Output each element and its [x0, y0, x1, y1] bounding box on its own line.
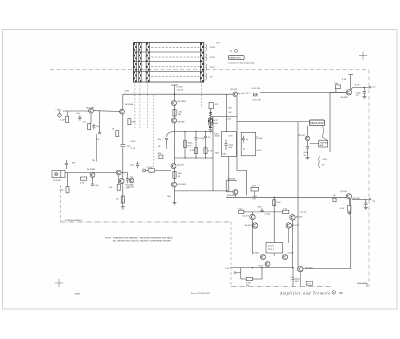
wire driver drop x274.2 [273, 197, 275, 242]
terminal OUT top [364, 86, 375, 89]
svg-text:BC546: BC546 [177, 164, 184, 166]
svg-text:L1704: L1704 [146, 167, 153, 169]
svg-text:1W: 1W [252, 199, 255, 201]
wire regulator to thermal switch [322, 126, 328, 141]
terminal OUT bottom [366, 198, 376, 202]
svg-text:BD140*: BD140* [353, 198, 361, 200]
svg-text:0.22µ: 0.22µ [199, 138, 205, 140]
wire ladder branch x205.5 [205, 132, 207, 159]
capacitor C1712 [130, 162, 139, 169]
node supply tick top right [348, 74, 353, 76]
wire y131.5 ladder top [175, 131, 214, 133]
wire sense branch x96.5 [96, 134, 98, 162]
resistor R1727 [241, 277, 262, 287]
wire base bus [244, 211, 283, 213]
transformer T1701 row lines [134, 52, 204, 72]
thermal switch S1701 [319, 140, 328, 147]
resistor R1701 [60, 116, 69, 122]
node input divider drop [66, 111, 68, 116]
wire Q1713 to bias line [234, 195, 236, 198]
transistor Q1707 [171, 164, 176, 169]
preamp can box A2 [241, 132, 255, 156]
wire ladder branch x185 [184, 132, 186, 159]
svg-text:1W8: 1W8 [213, 123, 218, 125]
wire top out collector [350, 75, 352, 90]
svg-text:+15V: +15V [226, 118, 232, 120]
svg-text:1W: 1W [178, 114, 181, 116]
svg-text:240V: 240V [210, 47, 216, 49]
svg-text:MAINS·SEL: MAINS·SEL [230, 57, 242, 60]
svg-text:BC547B: BC547B [227, 195, 236, 197]
wire Q1715 emitter [307, 141, 309, 147]
transistor Q1705 [208, 119, 212, 123]
wire bead right [155, 169, 171, 171]
capacitor C1706 [91, 177, 100, 187]
regulator box U1701 [310, 120, 325, 126]
node dots bottom cluster [252, 267, 294, 268]
transformer winding column P2 [139, 43, 142, 83]
bias pot box VR1701 [266, 242, 283, 253]
capacitor C1701 [76, 113, 81, 120]
wire right driver chain [288, 228, 290, 243]
svg-text:100µ: 100µ [228, 144, 234, 146]
capacitor C1704 series on rail [120, 144, 131, 148]
svg-text:4.7K: 4.7K [208, 150, 213, 152]
svg-text:BD139: BD139 [231, 89, 238, 91]
svg-text:+35.5V: +35.5V [176, 89, 184, 91]
resistor R1703 [128, 119, 136, 125]
resistor R1713 [204, 148, 213, 154]
wire R1720 to base [335, 89, 337, 93]
svg-text:56K: 56K [132, 121, 136, 123]
svg-text:Amplifier and Tremolo: Amplifier and Tremolo [279, 290, 330, 295]
transistor Q1714 [346, 90, 351, 95]
diode D1703 [226, 179, 237, 192]
svg-text:→ MIC: → MIC [55, 109, 62, 111]
svg-text:PICKUP: PICKUP [53, 180, 62, 182]
svg-text:4.7Ω 1W: 4.7Ω 1W [252, 99, 261, 101]
resistor R1723 labels [252, 196, 257, 201]
svg-text:22K: 22K [228, 108, 232, 110]
wire speaker branch [363, 88, 365, 92]
svg-text:NOTE: TRANSISTORS MARKED * RE: NOTE: TRANSISTORS MARKED * REQUIRE HEATS… [105, 237, 173, 240]
shield dashed boundary top [50, 69, 369, 71]
ground mid rail [173, 203, 177, 205]
resistor R1708 [109, 184, 121, 190]
node rail junction dot [174, 94, 175, 95]
transformer winding column P1 [134, 43, 137, 83]
svg-text:4.7K: 4.7K [131, 148, 136, 150]
svg-text:0.56R: 0.56R [288, 252, 294, 254]
svg-text:5.1K 4W: 5.1K 4W [252, 88, 260, 90]
wire emitter bus top [352, 87, 364, 89]
shield dash-dot line bottom right [231, 286, 332, 288]
transistor Q1706 [233, 92, 237, 96]
svg-text:1N4148: 1N4148 [228, 179, 236, 181]
wire jack bias drop [67, 173, 69, 187]
registration cross bottom left [55, 279, 63, 287]
svg-text:+1.5V: +1.5V [256, 150, 262, 152]
title stamp circle [332, 291, 336, 295]
wire bias line bottom y197.5 [226, 196, 346, 198]
wire bottom cluster rail y267.6 [231, 267, 294, 269]
brace right of A2 [256, 136, 263, 140]
input connector J1 [57, 113, 61, 117]
transistor Q1712 [129, 178, 134, 183]
svg-text:4.7K: 4.7K [252, 185, 257, 187]
svg-text:→ SCREEN SHIELD: → SCREEN SHIELD [62, 220, 83, 222]
wire y158 ladder bottom [175, 157, 214, 159]
svg-text:4.7K: 4.7K [80, 182, 85, 184]
svg-text:22K: 22K [229, 136, 233, 138]
svg-text:135K: 135K [130, 141, 136, 143]
shield dashed vertical joint [230, 222, 232, 287]
wire bead left [146, 169, 149, 171]
svg-text:56K: 56K [60, 189, 64, 191]
svg-text:+27.5V: +27.5V [299, 211, 307, 213]
resistor R1710 [158, 145, 167, 149]
svg-text:4.7K: 4.7K [355, 84, 360, 86]
shield label bracket near title [357, 283, 367, 287]
transistor Q1701 [89, 108, 94, 113]
transformer T1701 outer frame [134, 43, 204, 83]
wire return branch [261, 268, 263, 279]
svg-text:117V: 117V [210, 67, 215, 69]
svg-text:ALL RESISTORS 1/4W 5% UNLESS O: ALL RESISTORS 1/4W 5% UNLESS OTHERWISE S… [113, 240, 171, 243]
svg-text:BD139*: BD139* [341, 97, 349, 99]
transistor Q1711 [119, 179, 124, 184]
wire horizontal y116.5 [211, 116, 238, 118]
wire ladder branch x196 [195, 132, 197, 159]
svg-text:2.2M: 2.2M [60, 120, 65, 122]
svg-text:REGULATOR: REGULATOR [310, 122, 324, 125]
resistor R1712 [190, 148, 198, 154]
ground top-right [362, 96, 366, 98]
svg-text:Q1708: Q1708 [340, 191, 347, 193]
svg-text:0.22µ: 0.22µ [265, 213, 271, 215]
svg-text:220V: 220V [210, 57, 216, 59]
capacitor C1715 [364, 203, 367, 207]
svg-text:BC556B: BC556B [125, 104, 134, 106]
resistor R1707 [80, 177, 87, 184]
wire Q1710 emitter [118, 175, 120, 184]
svg-text:40V: 40V [228, 147, 232, 149]
svg-text:BD139*: BD139* [292, 225, 300, 227]
node L1703 top tick [171, 84, 178, 86]
wire emitter bus bottom [352, 198, 366, 200]
shield dashed vertical left [60, 185, 62, 222]
svg-text:2.2K: 2.2K [178, 111, 183, 113]
wire regulator feed faint [280, 120, 310, 122]
capacitor C1703 [96, 133, 102, 142]
svg-text:17Ω: 17Ω [225, 268, 229, 270]
svg-text:100µ: 100µ [303, 152, 309, 154]
transistor Q1703 [172, 101, 177, 106]
shield dash-dot line mid left [61, 221, 232, 223]
wire Q1715 collector [307, 126, 309, 137]
svg-text:8.2K: 8.2K [190, 150, 195, 152]
wire long right vertical x298 [297, 122, 299, 269]
wire Q1715 base to switch [310, 143, 319, 145]
mains info circled mark [230, 49, 238, 53]
ground R1722 [347, 212, 351, 214]
transistor Q1715 [305, 136, 309, 140]
capacitor C1717 [290, 268, 301, 287]
resistor R1723 [251, 185, 258, 197]
wire input top [63, 110, 89, 112]
ferrite bead L1704 [146, 167, 154, 172]
svg-text:BC546B: BC546B [87, 169, 96, 171]
svg-text:100K: 100K [215, 136, 221, 138]
node dot [364, 87, 365, 88]
wire left rail [122, 94, 124, 207]
svg-text:+20V: +20V [322, 159, 328, 161]
capacitor C1710 [194, 137, 205, 140]
shield dashed boundary right [368, 70, 370, 287]
wire lower-left signal y172.5 [65, 172, 128, 174]
svg-text:Q1707: Q1707 [243, 216, 250, 218]
svg-text:+39V: +39V [124, 91, 130, 93]
transistor Q1702 [120, 109, 125, 114]
wire top supply rail left [123, 93, 233, 95]
svg-text:10K: 10K [72, 162, 76, 164]
svg-text:BD139*: BD139* [178, 121, 186, 123]
wire Q1701 collector to Q1702 [93, 110, 119, 113]
svg-text:86: 86 [339, 291, 343, 295]
resistor R1724 [273, 200, 282, 206]
labels on supply drop [228, 108, 232, 115]
resistor R1715 on mid rail [173, 171, 182, 178]
transistor Q1722 [282, 254, 287, 259]
transistor Q1704 [172, 118, 177, 123]
capacitor C1709 [183, 141, 193, 148]
resistor R1706 [60, 187, 69, 193]
wire bottom out emitter rail [303, 199, 351, 269]
svg-text:1W: 1W [246, 285, 249, 287]
inductor L1703 labels [176, 87, 184, 92]
wire Q1714 emitter out [350, 88, 353, 90]
wire Q1716 emitter drop [348, 199, 350, 205]
label 17.5 box [306, 281, 312, 285]
wire horizontal y191 [175, 190, 229, 192]
svg-text:BC556: BC556 [127, 187, 134, 189]
resistor R1725 base left [238, 208, 244, 213]
svg-text:out: out [372, 86, 375, 89]
transistor Q1721 [260, 254, 265, 259]
wire x228.8 lower [228, 157, 230, 191]
wire zener drop [210, 109, 212, 129]
transformer secondary braces and labels [206, 44, 207, 80]
diode D1702 [209, 126, 212, 128]
wire x292.5 segment [292, 220, 294, 268]
wire base drop right [292, 214, 294, 215]
wire x330 drop [329, 93, 331, 153]
svg-text:100µ: 100µ [188, 143, 194, 145]
transistor Q1711 label [125, 185, 134, 190]
svg-text:L1703: L1703 [176, 87, 183, 89]
wire supply drop x226.7 [226, 94, 228, 131]
svg-text:40V: 40V [295, 281, 299, 283]
resistor R1705 on rail bottom [116, 196, 124, 203]
svg-text:VR1.1: VR1.1 [268, 249, 275, 251]
transistor Q1724 [298, 266, 303, 271]
svg-text:BD139: BD139 [306, 268, 313, 270]
resistor R1704 [112, 129, 119, 137]
svg-text:2x22T: 2x22T [268, 246, 275, 248]
resistor R1709 on mid rail [173, 109, 183, 116]
svg-text:out: out [372, 199, 375, 202]
svg-text:THERM: THERM [320, 142, 328, 144]
capacitor C1716 mid [257, 206, 271, 215]
capacitor C1711 [203, 136, 211, 139]
preamp can box A1 [221, 132, 236, 157]
transistor Q1709 [90, 173, 95, 178]
registration cross top right [359, 52, 367, 60]
wire Q1713 base [226, 191, 233, 193]
svg-text:39K: 39K [259, 138, 263, 140]
resistor R1720 top-right [334, 83, 340, 89]
transistor Q1710 [116, 170, 121, 175]
svg-text:DATE: DATE [75, 292, 81, 295]
resistor R1722 [340, 205, 351, 211]
transistor Q1719 [252, 223, 257, 228]
resistor R1718 above diode chain [209, 103, 219, 109]
node bias dot [274, 197, 275, 198]
wire input stub [59, 111, 61, 113]
fuse F1701 [252, 88, 261, 101]
ground bottom-right [364, 207, 368, 209]
svg-text:8.2K: 8.2K [342, 79, 347, 81]
terminal arrow bottom left [235, 268, 241, 279]
node ladder dots [184, 131, 206, 159]
transistor Q1718 [290, 215, 295, 220]
wire speaker branch bottom [365, 199, 367, 202]
transformer pin dashed leads [135, 82, 202, 167]
mains label box [229, 55, 245, 59]
svg-text:SW: SW [320, 145, 323, 147]
transformer winding column P3 [146, 43, 149, 83]
wire top supply rail right [260, 91, 346, 93]
svg-text:39K: 39K [178, 173, 182, 175]
transformer dashed core lines [151, 47, 200, 76]
output jack J2 [52, 171, 65, 182]
capacitor C1702 [92, 124, 100, 130]
wire top supply rail mid dashed [238, 92, 251, 95]
wire bias branch x99.5 [99, 111, 101, 132]
wire arc to ladder [167, 132, 175, 138]
wire mid rail [174, 85, 176, 203]
ground zener chain [209, 130, 213, 132]
wire left driver chain [252, 220, 254, 255]
note text block [105, 237, 173, 243]
svg-text:BD139: BD139 [296, 216, 303, 218]
resistor R1711 small box [158, 153, 163, 159]
ground regulator [306, 158, 310, 160]
svg-text:BC546B: BC546B [178, 101, 187, 103]
svg-text:Price G/10.45.1970: Price G/10.45.1970 [191, 292, 211, 295]
node wiper circle [143, 169, 146, 172]
wire pot bottom [273, 253, 275, 256]
wire base drop left [252, 212, 254, 214]
svg-text:BC556B: BC556B [178, 184, 187, 186]
ground left rail [121, 207, 125, 209]
wire feedback rail [237, 97, 247, 196]
svg-text:25V: 25V [188, 145, 192, 147]
transistor Q1717 [250, 214, 255, 219]
svg-text:1W: 1W [228, 112, 231, 114]
capacitor C1708 [157, 136, 168, 144]
svg-text:4.7K: 4.7K [213, 120, 218, 122]
svg-text:BC547: BC547 [299, 135, 306, 137]
svg-text:BD140*: BD140* [245, 225, 253, 227]
svg-text:15K: 15K [277, 202, 281, 204]
svg-text:BC546B: BC546B [86, 108, 95, 110]
diode D1701 [209, 112, 212, 115]
resistor R1702 [83, 122, 90, 130]
wire Q1724 emitter drop [299, 272, 301, 287]
capacitor C1714 [356, 92, 366, 98]
transistor Q1716 [346, 194, 351, 199]
capacitor C1713 [303, 147, 309, 158]
transistor Q1716 labels [340, 191, 360, 200]
transistor Q1723 [265, 262, 270, 267]
capacitor C1707 [126, 173, 134, 184]
transistor Q1713 [233, 190, 238, 195]
capacitor C1705 above jack [65, 160, 76, 169]
wire Q1701 emitter drop [90, 113, 92, 124]
resistor R1726 base right [283, 208, 289, 213]
svg-text:1K77: 1K77 [258, 265, 264, 267]
wire mid vertical x213 [212, 117, 214, 191]
resistor R1719 [209, 118, 219, 125]
brace supply taps [319, 157, 328, 168]
transformer winding column S1 [200, 43, 203, 83]
transistor Q1720 [286, 223, 291, 228]
wire base line top right [330, 91, 346, 93]
wire regulator feed y121.5 [237, 120, 280, 122]
svg-text:0.56R: 0.56R [253, 253, 259, 255]
svg-text:39K: 39K [257, 206, 261, 208]
transistor Q1708 [172, 182, 177, 187]
svg-text:(connect to line frequency): (connect to line frequency) [229, 61, 255, 64]
resistor R1721 bottom-right [333, 195, 336, 202]
